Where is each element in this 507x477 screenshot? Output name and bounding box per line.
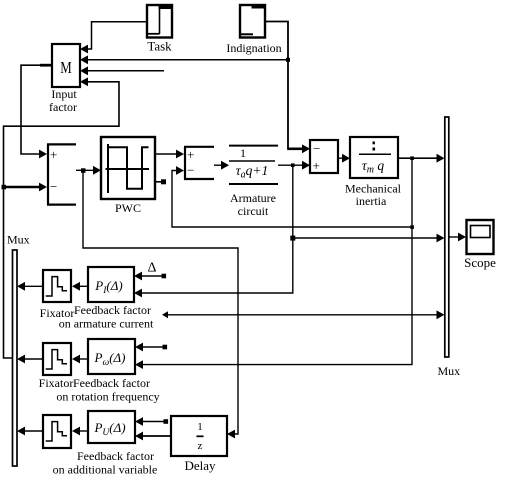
arrow into sum1 minus — [39, 183, 47, 192]
Scope block — [467, 220, 494, 254]
junction at Indignation branch — [286, 58, 290, 62]
svg-text:PWC: PWC — [115, 201, 141, 215]
Fixator1 block — [43, 270, 71, 302]
Fixator3 block — [43, 415, 71, 448]
svg-text:−: − — [187, 163, 194, 178]
arrow into armature TF — [221, 161, 229, 170]
wire right mux to scope — [449, 236, 459, 238]
svg-text:Feedback factor: Feedback factor — [73, 376, 150, 390]
Fixator2 block — [43, 343, 71, 375]
left Mux bar — [13, 250, 18, 466]
wire PI to Fixator1 — [79, 285, 88, 287]
gain block PU — [88, 411, 135, 443]
wire inertia output to right mux input1 — [398, 157, 438, 159]
svg-text:Mux: Mux — [7, 233, 30, 247]
sum block sum1 — [47, 144, 76, 204]
arrow into M input4 — [80, 77, 88, 86]
sum block sum2 — [184, 147, 214, 179]
wire Pomega to Fixator2 — [79, 358, 88, 360]
unit delay block — [171, 416, 227, 456]
junction speed line — [410, 225, 414, 229]
wire Fixator1 to left mux input1 — [24, 285, 43, 287]
svg-text:factor: factor — [49, 100, 77, 114]
svg-text:on additional variable: on additional variable — [53, 463, 158, 477]
junction at TF output — [291, 163, 295, 167]
wire PWC top output to sum2 plus — [155, 153, 177, 155]
Pomega top input stub — [142, 346, 164, 348]
wire M output to sum1 plus — [21, 65, 52, 154]
dangling arrow left end — [162, 311, 168, 318]
gain block Pomega — [88, 339, 135, 374]
wire left bus to sum1 minus — [4, 186, 40, 188]
svg-text:M: M — [60, 58, 72, 77]
wire Fixator2 to left mux input2 — [24, 358, 43, 360]
speed feedback wire down to P omega — [142, 158, 412, 364]
svg-text:z: z — [198, 440, 203, 452]
svg-text:Feedback factor: Feedback factor — [77, 449, 154, 463]
svg-text:Task: Task — [147, 39, 172, 54]
junction at sum1 output — [81, 168, 86, 173]
arrow into right mux input3 — [437, 310, 445, 319]
svg-text:Fixator: Fixator — [39, 376, 74, 390]
svg-text:on rotation frequency: on rotation frequency — [56, 390, 159, 404]
wire M input3 dangling — [87, 70, 164, 72]
wire Task to M input1 — [87, 22, 146, 49]
svg-text:Input: Input — [51, 87, 77, 101]
junction on left bus to sum1 minus — [2, 185, 7, 190]
svg-text:+: + — [50, 147, 57, 162]
arrow into sum3 minus — [302, 144, 310, 153]
PU top input stub — [142, 421, 165, 423]
wire Indignation out, down to sum3 minus, branch to M input2 — [266, 22, 288, 149]
arrow into P omega bottom input — [135, 360, 143, 369]
feedback wire into sum2 minus from speed line — [172, 171, 412, 228]
wire Delay output to PU bottom input — [142, 435, 171, 437]
sum block sum3 — [310, 140, 338, 173]
armature current wire down to mux2 and PI — [141, 165, 293, 293]
svg-text:Indignation: Indignation — [226, 41, 281, 55]
svg-text:circuit: circuit — [238, 204, 269, 218]
arrow into M input3 — [80, 66, 88, 75]
arrow into Delay input — [227, 430, 235, 439]
wire TF output to sum3 plus — [278, 164, 302, 166]
junction speed output — [410, 156, 414, 160]
svg-text:+: + — [313, 158, 320, 173]
step source Indignation — [240, 4, 266, 38]
PWC block — [101, 137, 155, 199]
svg-text:inertia: inertia — [356, 194, 387, 208]
arrow into sum2 plus — [176, 150, 184, 159]
svg-text:Δ: Δ — [147, 261, 156, 276]
svg-text:τm q: τm q — [362, 158, 384, 176]
svg-text:Feedback factor: Feedback factor — [74, 303, 151, 317]
wire sum1 output to PWC — [76, 169, 94, 171]
svg-text:τaq+1: τaq+1 — [236, 163, 268, 181]
svg-text:Armature: Armature — [230, 191, 276, 205]
svg-text:1: 1 — [197, 421, 203, 433]
arrow into PWC — [93, 166, 101, 175]
wire M input4 from left mux output bus — [4, 82, 120, 358]
transfer function Armature circuit — [229, 146, 278, 184]
wire current to right mux input2 — [293, 237, 438, 239]
wire sum1 output down and across to Delay input — [83, 170, 238, 434]
arrow into M input1 — [80, 45, 88, 54]
svg-text:Delay: Delay — [184, 458, 216, 473]
svg-text:Scope: Scope — [464, 255, 496, 270]
PWC bottom stub unconnected — [155, 181, 162, 183]
arrow into M input2 — [80, 55, 88, 64]
svg-text:1: 1 — [240, 146, 246, 160]
arrow into PI bottom input — [134, 289, 142, 298]
right Mux bar — [445, 117, 449, 357]
gain block PI — [88, 267, 134, 302]
svg-text:Mux: Mux — [438, 364, 461, 378]
arrow into sum1 plus — [39, 150, 47, 159]
wire Fixator3 to left mux input3 — [24, 430, 43, 432]
additional variable wire to right mux input3 — [164, 314, 438, 316]
step source Task — [147, 4, 173, 38]
gain block M (Input factor) — [52, 44, 80, 87]
svg-text:−: − — [50, 179, 57, 194]
svg-text:on armature current: on armature current — [59, 317, 154, 331]
wire sum2 output to armature TF — [214, 164, 221, 166]
PI top input stub with delta — [141, 275, 163, 277]
junction current to mux — [290, 236, 295, 241]
transfer function Mechanical inertia — [350, 137, 398, 178]
wire sum3 to Mechanical inertia — [338, 157, 343, 159]
wire PU to Fixator3 — [79, 430, 88, 432]
svg-text:+: + — [187, 147, 194, 162]
svg-text:−: − — [313, 141, 320, 156]
